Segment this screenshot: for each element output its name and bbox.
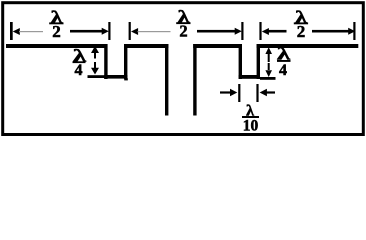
- dimension λ/2 #1 right tick: [108, 22, 110, 40]
- dimension λ/2 #1 label: [49, 7, 63, 41]
- dimension λ/4 right label: [277, 44, 291, 80]
- dimension λ/10 right arrowhead (points left): [260, 89, 267, 96]
- notch 1 right wall: [124, 44, 127, 79]
- dimension λ/2 #2 right tick: [241, 22, 243, 40]
- dimension λ/2 #3 left tick: [259, 22, 261, 40]
- dimension λ/2 #1 left arrowhead: [13, 28, 20, 35]
- notch 2 floor: [239, 75, 260, 79]
- dimension λ/2 #2 label: [176, 7, 190, 41]
- dimension λ/2 #2 left line: [138, 31, 171, 32]
- dimension λ/2 #3 left arrowhead: [262, 28, 269, 35]
- dimension λ/2 #3 label: [294, 7, 308, 41]
- dimension λ/10 left arrowhead (points right): [230, 89, 237, 96]
- notch 2 left wall: [239, 44, 242, 79]
- dimension λ/2 #1 left tick: [10, 22, 13, 40]
- dimension λ/2 #3 left line: [269, 30, 287, 33]
- dimension λ/2 #3 right tick: [353, 22, 355, 40]
- dimension λ/4 left down arrowhead: [91, 68, 99, 75]
- feed line right conductor: [193, 44, 196, 116]
- svg-text:4: 4: [75, 62, 83, 79]
- svg-text:2: 2: [179, 22, 187, 41]
- dimension λ/2 #1 right line: [70, 30, 103, 33]
- dimension λ/4 right extension line: [260, 77, 276, 80]
- dimension λ/4 right lower stem: [268, 63, 270, 70]
- dimension λ/2 #3 right arrowhead: [348, 28, 355, 35]
- dimension λ/4 left lower stem: [94, 62, 96, 69]
- notch 1 corner overshoot: [124, 78, 128, 80]
- dimension λ/4 right up arrowhead: [265, 47, 272, 54]
- wire: main conductor segment C (feed gap to notch 2): [193, 44, 242, 48]
- wire: main conductor segment A (left end to notch 1): [6, 44, 106, 48]
- svg-text:10: 10: [243, 118, 259, 135]
- dimension λ/2 #1 left line: [19, 31, 43, 32]
- dimension λ/2 #1 right arrowhead: [102, 28, 109, 35]
- dimension λ/4 right upper stem: [268, 54, 270, 63]
- svg-text:2: 2: [52, 22, 61, 41]
- notch 1 floor: [104, 75, 127, 79]
- dimension λ/10 left line: [220, 91, 232, 93]
- dimension λ/2 #2 right arrowhead: [235, 28, 242, 35]
- dimension λ/10 right line: [265, 91, 275, 93]
- svg-text:4: 4: [279, 62, 287, 79]
- dimension λ/2 #3 right line: [312, 30, 350, 33]
- dimension λ/4 left label: [73, 46, 87, 79]
- feed line left conductor: [165, 44, 168, 116]
- notch 1 left wall: [104, 44, 107, 79]
- wire: main conductor segment D (notch 2 to right end): [257, 44, 359, 48]
- dimension λ/4 left extension line: [88, 75, 105, 78]
- dimension λ/2 #2 left tick: [129, 22, 131, 40]
- dimension λ/4 left upper stem: [94, 52, 96, 59]
- dimension λ/10 right tick: [256, 84, 258, 102]
- svg-text:2: 2: [297, 22, 306, 41]
- dimension λ/2 #2 right line: [197, 30, 236, 33]
- wire: main conductor segment B (notch 1 to feed gap): [124, 44, 168, 48]
- dimension λ/4 right down arrowhead: [265, 70, 272, 77]
- dimension λ/2 #2 left arrowhead: [131, 28, 138, 35]
- dimension λ/4 left up arrowhead: [91, 46, 99, 53]
- dimension λ/10 left tick: [238, 84, 240, 102]
- notch 2 right wall: [257, 44, 260, 79]
- dimension λ/10 label: [242, 103, 259, 135]
